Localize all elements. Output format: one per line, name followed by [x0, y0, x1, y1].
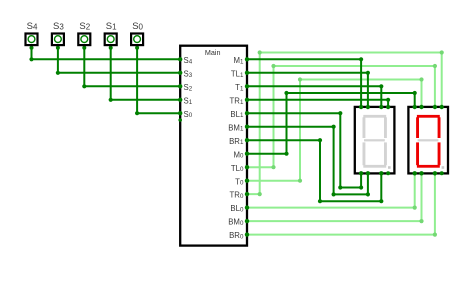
svg-text:BL1: BL1	[230, 110, 244, 119]
svg-text:S2: S2	[79, 21, 90, 32]
wire M0 (Main.M0 to display U2 pin g)	[247, 93, 415, 154]
svg-text:S0: S0	[184, 110, 193, 119]
Main unconnected input pin node	[178, 118, 182, 122]
svg-text:S4: S4	[27, 21, 38, 32]
wire M1 (Main.M1 to display U1 pin g)	[247, 59, 361, 107]
segment b of U2 (digit 0, showing 0)	[438, 117, 441, 138]
subcircuit block Main	[180, 46, 247, 246]
seven segment display U2 (digit 0, showing 0)	[408, 105, 448, 176]
svg-text:S1: S1	[106, 21, 117, 32]
segment f of U2 (digit 0, showing 0)	[416, 117, 419, 138]
wire BR1 (Main.BR1 to display U1 pin c)	[247, 140, 381, 201]
svg-text:S3: S3	[53, 21, 64, 32]
svg-text:BR0: BR0	[229, 231, 244, 240]
segment f of U1 (digit 1, blank)	[363, 117, 366, 138]
svg-text:M0: M0	[233, 150, 244, 159]
wire S3 (switch S3 to Main.S3)	[58, 46, 180, 73]
svg-text:BL0: BL0	[230, 204, 244, 213]
unconnected dot pin of U1 (digit 1, blank)	[386, 171, 390, 175]
input switch S4	[26, 21, 38, 50]
svg-text:BM1: BM1	[228, 123, 244, 132]
wire BM0 (Main.BM0 to display U2 pin d)	[247, 173, 422, 221]
svg-text:TR0: TR0	[230, 191, 244, 200]
segment e of U2 (digit 0, showing 0)	[416, 142, 419, 165]
input switch S0	[131, 21, 143, 50]
wire TR1 (Main.TR1 to display U1 pin b)	[247, 100, 388, 107]
wire S0 (switch S0 to Main.S0)	[137, 46, 180, 113]
pin nodes of U2 (digit 0, showing 0)	[413, 105, 417, 109]
wire BR0 (Main.BR0 to display U2 pin c)	[247, 173, 435, 234]
wire TL1 (Main.TL1 to display U1 pin f)	[247, 73, 368, 107]
segment a of U2 (digit 0, showing 0)	[417, 115, 440, 118]
wire S2 (switch S2 to Main.S2)	[84, 46, 180, 86]
svg-text:S0: S0	[132, 21, 143, 32]
svg-text:T0: T0	[235, 177, 244, 186]
decimal point of U1 (digit 1, blank)	[388, 166, 391, 169]
segment c of U1 (digit 1, blank)	[384, 142, 387, 165]
wire T1 (Main.T1 to display U1 pin a)	[247, 86, 381, 107]
segment b of U1 (digit 1, blank)	[384, 117, 387, 138]
input switch S3	[52, 21, 64, 50]
segment d of U1 (digit 1, blank)	[363, 165, 386, 168]
pin nodes of U1 (digit 1, blank)	[359, 105, 363, 109]
segment a of U1 (digit 1, blank)	[363, 115, 386, 118]
svg-text:BR1: BR1	[229, 137, 244, 146]
wire S4 (switch S4 to Main.S4)	[32, 46, 181, 59]
decimal point of U2 (digit 0, showing 0)	[442, 166, 445, 169]
segment c of U2 (digit 0, showing 0)	[438, 142, 441, 165]
input switch S2	[78, 21, 90, 50]
wire BM1 (Main.BM1 to display U1 pin d)	[247, 127, 368, 195]
wire S1 (switch S1 to Main.S1)	[111, 46, 181, 100]
svg-text:Main: Main	[205, 48, 221, 57]
segment g of U2 (digit 0, showing 0)	[418, 139, 439, 141]
segment e of U1 (digit 1, blank)	[363, 142, 366, 165]
svg-text:BM0: BM0	[228, 218, 244, 227]
Main output pin nodes	[245, 57, 249, 61]
Main input pin nodes	[178, 57, 182, 61]
wire BL0 (Main.BL0 to display U2 pin e)	[247, 173, 415, 207]
wire TL0 (Main.TL0 to display U2 pin a)	[247, 66, 435, 167]
input switch S1	[105, 21, 117, 50]
unconnected dot pin of U2 (digit 0, showing 0)	[440, 171, 444, 175]
svg-text:TL0: TL0	[231, 164, 244, 173]
wire BL1 (Main.BL1 to display U1 pin e)	[247, 113, 361, 187]
wire T0 (Main.T0 to display U2 pin f)	[247, 80, 422, 181]
wire TR0 (Main.TR0 to display U2 pin b)	[247, 53, 442, 195]
segment g of U1 (digit 1, blank)	[364, 139, 385, 141]
seven segment display U1 (digit 1, blank)	[355, 105, 395, 176]
segment d of U2 (digit 0, showing 0)	[417, 165, 440, 168]
